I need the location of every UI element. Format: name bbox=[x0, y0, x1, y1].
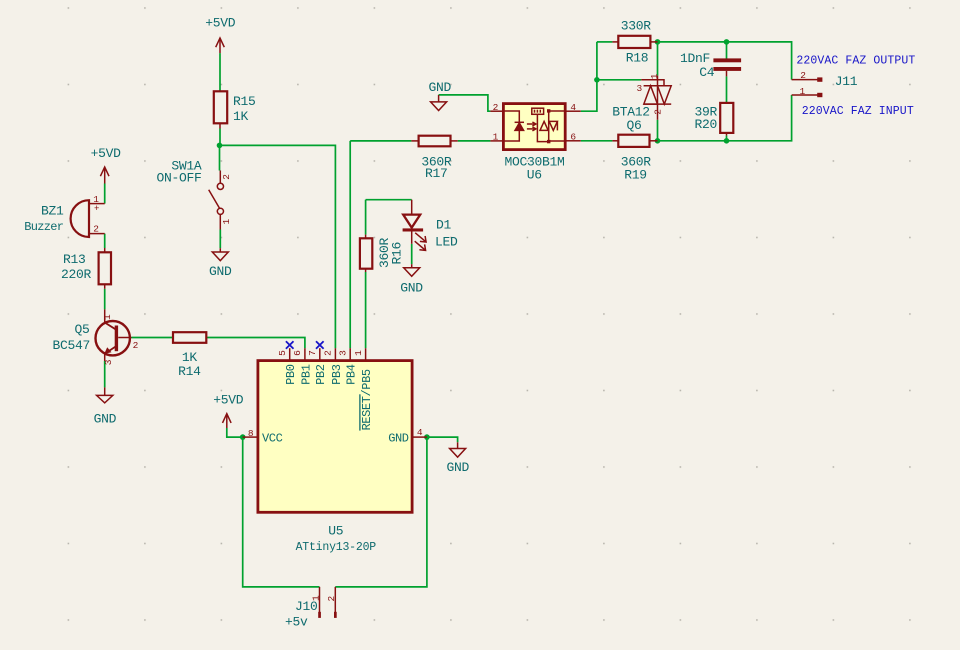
svg-text:GND: GND bbox=[94, 412, 117, 427]
svg-text:GND: GND bbox=[446, 460, 469, 475]
svg-text:ATtiny13-20P: ATtiny13-20P bbox=[296, 541, 377, 554]
svg-text:PB0: PB0 bbox=[284, 364, 298, 385]
svg-text:4: 4 bbox=[570, 102, 576, 113]
svg-text:7: 7 bbox=[307, 350, 318, 356]
svg-text:LED: LED bbox=[435, 234, 458, 249]
svg-text:PB4: PB4 bbox=[345, 364, 359, 385]
svg-text:R17: R17 bbox=[425, 166, 448, 181]
svg-text:2: 2 bbox=[800, 70, 806, 81]
svg-text:5: 5 bbox=[277, 350, 288, 356]
svg-text:BC547: BC547 bbox=[53, 338, 91, 353]
svg-text:220VAC FAZ INPUT: 220VAC FAZ INPUT bbox=[802, 105, 914, 118]
svg-text:U5: U5 bbox=[328, 524, 343, 539]
svg-text:R14: R14 bbox=[178, 364, 201, 379]
svg-text:GND: GND bbox=[429, 80, 452, 95]
svg-text:GND: GND bbox=[400, 281, 423, 296]
svg-text:8: 8 bbox=[248, 428, 254, 439]
svg-text:Q5: Q5 bbox=[75, 322, 90, 337]
svg-text:2: 2 bbox=[133, 340, 139, 351]
svg-text:BZ1: BZ1 bbox=[41, 204, 64, 219]
svg-text:C4: C4 bbox=[699, 65, 715, 80]
svg-text:220VAC FAZ OUTPUT: 220VAC FAZ OUTPUT bbox=[796, 55, 915, 68]
svg-text:2: 2 bbox=[221, 174, 232, 180]
svg-text:2: 2 bbox=[326, 596, 337, 602]
svg-text:+5v: +5v bbox=[285, 614, 308, 629]
svg-text:Q6: Q6 bbox=[627, 118, 642, 133]
svg-text:3: 3 bbox=[103, 359, 114, 365]
svg-text:J11: J11 bbox=[835, 74, 858, 89]
svg-text:1: 1 bbox=[102, 314, 113, 320]
svg-text:+5VD: +5VD bbox=[213, 392, 244, 407]
svg-text:2: 2 bbox=[493, 102, 499, 113]
svg-text:R19: R19 bbox=[624, 167, 647, 182]
svg-text:Buzzer: Buzzer bbox=[24, 220, 64, 234]
svg-text:R18: R18 bbox=[626, 51, 649, 66]
svg-text:3: 3 bbox=[337, 350, 348, 356]
svg-text:1DnF: 1DnF bbox=[680, 51, 710, 66]
svg-text:+: + bbox=[94, 204, 99, 214]
svg-text:1: 1 bbox=[310, 595, 321, 601]
svg-text:PB2: PB2 bbox=[314, 364, 328, 385]
svg-text:R13: R13 bbox=[63, 252, 86, 267]
svg-text:PB1: PB1 bbox=[299, 364, 313, 385]
svg-text:R20: R20 bbox=[695, 117, 718, 132]
svg-text:1K: 1K bbox=[233, 109, 249, 124]
svg-text:1: 1 bbox=[221, 219, 232, 225]
svg-text:D1: D1 bbox=[436, 218, 452, 233]
svg-text:R16: R16 bbox=[390, 242, 405, 265]
svg-text:1: 1 bbox=[353, 350, 364, 356]
svg-text:1: 1 bbox=[649, 73, 660, 79]
svg-text:+5VD: +5VD bbox=[205, 15, 236, 30]
svg-text:1K: 1K bbox=[182, 350, 198, 365]
svg-text:RESET/PB5: RESET/PB5 bbox=[360, 369, 374, 430]
svg-text:R15: R15 bbox=[233, 94, 256, 109]
svg-text:PB3: PB3 bbox=[330, 364, 344, 385]
svg-text:+5VD: +5VD bbox=[91, 146, 122, 161]
svg-text:2: 2 bbox=[323, 350, 334, 356]
svg-text:6: 6 bbox=[570, 132, 576, 143]
svg-text:1: 1 bbox=[800, 86, 806, 97]
svg-text:GND: GND bbox=[388, 432, 409, 446]
svg-text:ON-OFF: ON-OFF bbox=[156, 171, 201, 186]
svg-text:2: 2 bbox=[93, 223, 99, 234]
svg-text:330R: 330R bbox=[621, 18, 652, 33]
svg-text:6: 6 bbox=[292, 350, 303, 356]
svg-text:3: 3 bbox=[637, 83, 643, 94]
svg-text:U6: U6 bbox=[527, 168, 542, 183]
svg-text:GND: GND bbox=[209, 264, 232, 279]
svg-text:220R: 220R bbox=[61, 267, 92, 282]
svg-text:2: 2 bbox=[653, 109, 664, 115]
svg-text:VCC: VCC bbox=[262, 432, 283, 446]
svg-text:1: 1 bbox=[493, 132, 499, 143]
svg-text:4: 4 bbox=[417, 427, 423, 438]
